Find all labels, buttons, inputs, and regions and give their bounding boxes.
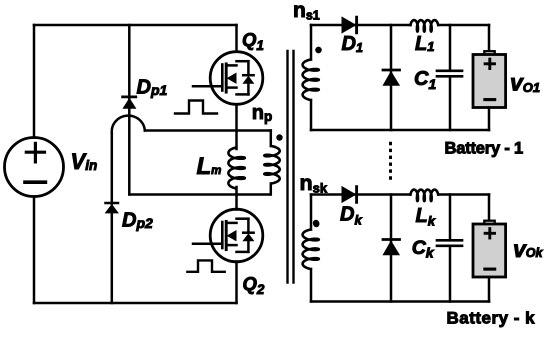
svg-text:Battery - 1: Battery - 1 [445,140,524,158]
svg-text:Battery - k: Battery - k [447,309,536,328]
